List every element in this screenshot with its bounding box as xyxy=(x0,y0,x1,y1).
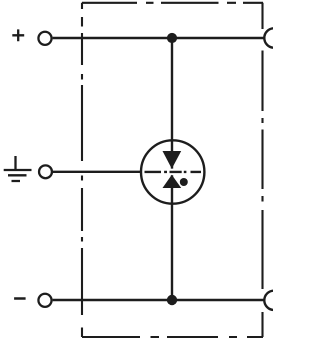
arrowhead down (upper, inside SPD) xyxy=(163,151,182,169)
wire: middle rail (earth) xyxy=(53,171,142,173)
enclosure left border (dash-dot) xyxy=(81,3,83,337)
terminal circle left - xyxy=(38,294,51,307)
enclosure top border (dash-dot) xyxy=(82,2,263,4)
indicator dot inside SPD xyxy=(180,178,188,186)
chain line through SPD circle xyxy=(145,171,202,173)
arrowhead up (lower, inside SPD) xyxy=(163,175,182,188)
terminal circle left earth xyxy=(39,165,52,178)
ground symbol xyxy=(4,156,32,181)
wire: bottom rail (-) xyxy=(53,299,264,301)
wire: vertical branch upper segment xyxy=(171,38,173,169)
junction dot bottom xyxy=(167,295,177,305)
terminal circle right top (cut at edge) xyxy=(264,28,283,47)
label + xyxy=(12,29,24,41)
junction dot top xyxy=(167,33,177,43)
enclosure right border (dash-dot) xyxy=(261,3,263,337)
wire: top rail (+) xyxy=(53,37,264,39)
wire: vertical branch lower segment xyxy=(171,175,173,300)
terminal circle left + xyxy=(38,32,51,45)
enclosure bottom border (dash-dot) xyxy=(82,336,263,338)
terminal circle right bottom (cut at edge) xyxy=(264,291,283,310)
SPD circle U1 xyxy=(141,140,204,203)
label - xyxy=(14,297,26,300)
